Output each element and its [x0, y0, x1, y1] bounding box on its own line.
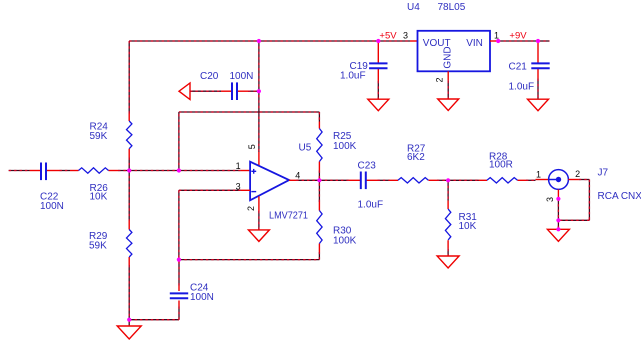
node junction J7 pin3: [556, 197, 560, 201]
wire pin 2 right: [579, 179, 590, 181]
svg-text:2: 2: [246, 206, 256, 211]
svg-text:GND: GND: [443, 46, 454, 68]
svg-text:1.0uF: 1.0uF: [340, 71, 366, 82]
capacitor C23: [361, 172, 366, 190]
capacitor C21: [531, 63, 549, 68]
node junction +5V / pin5 rail: [257, 39, 261, 43]
svg-text:100N: 100N: [40, 201, 64, 212]
op-amp U5 pin 2 stub: [258, 196, 260, 211]
op-amp U5 pin 3 stub: [241, 189, 250, 191]
wire R30 top to output node: [318, 180, 320, 202]
wire +5V to regulator: [378, 40, 410, 42]
input terminal arrow (C20 left): [179, 83, 190, 100]
wire to R25: [318, 112, 320, 122]
node junction bottom ground: [127, 318, 131, 322]
svg-text:100N: 100N: [230, 71, 254, 82]
wire input left stub: [9, 170, 30, 172]
resistor R25: [317, 129, 322, 162]
connector J7 pin 3 stub: [557, 189, 559, 198]
svg-text:10K: 10K: [459, 221, 477, 232]
capacitor C22 pins: [30, 170, 41, 172]
resistor R24 pins: [128, 114, 130, 122]
node junction J7 shield: [556, 218, 560, 222]
wire U4 pin 2 to ground: [447, 81, 449, 99]
svg-text:3: 3: [545, 197, 555, 202]
node junction J7 ground: [556, 227, 560, 231]
node junction C21: [536, 39, 540, 43]
svg-text:100N: 100N: [190, 292, 214, 303]
svg-text:2: 2: [575, 169, 580, 179]
regulator U4 pin 1 stub: [490, 40, 498, 42]
regulator U4 78L05 box: [418, 31, 491, 72]
svg-text:2: 2: [435, 77, 445, 82]
wire pin 3 left: [179, 189, 241, 191]
op-amp plus sign: [251, 169, 256, 174]
wire pin 2 to ground: [258, 211, 260, 230]
wire C22 to R26: [60, 170, 71, 172]
capacitor C20 pins: [221, 90, 231, 92]
wire +9V mid: [498, 40, 538, 42]
wire C21 to ground: [537, 79, 539, 100]
connector J7 pin 2 stub: [568, 179, 579, 181]
wire node to R28: [448, 179, 478, 181]
connector J7 RCA symbol: [549, 170, 569, 190]
svg-text:U5: U5: [299, 143, 312, 154]
svg-text:+9V: +9V: [509, 31, 527, 42]
svg-text:4: 4: [295, 171, 300, 181]
wire R25 to output node: [318, 171, 320, 181]
resistor R27 pins: [390, 179, 399, 181]
resistor R28: [487, 178, 518, 183]
regulator U4 pin 3 stub: [410, 40, 418, 42]
svg-text:3: 3: [403, 30, 408, 40]
wire pin 2 down: [588, 180, 590, 221]
wire +5V top mid: [259, 40, 378, 42]
wire R30 bottom riser: [318, 252, 320, 260]
capacitor C24: [170, 293, 188, 298]
node junction R27/R28/R31: [446, 178, 450, 182]
svg-text:LMV7271: LMV7271: [269, 211, 308, 222]
svg-text:C23: C23: [358, 161, 377, 172]
wire feedback tap up: [178, 112, 180, 171]
svg-text:5: 5: [247, 144, 257, 149]
op-amp U5 pin 4 stub: [289, 179, 296, 181]
resistor R27: [398, 178, 429, 183]
wire node to feedback tap: [129, 170, 179, 172]
wire pin 3 down: [557, 199, 559, 221]
capacitor C19: [369, 63, 387, 68]
resistor R29 pins: [128, 221, 130, 230]
wire R26 to node: [118, 170, 129, 172]
ground R31: [437, 256, 459, 268]
wire C24 bottom: [178, 307, 180, 320]
svg-text:59K: 59K: [90, 131, 108, 142]
op-amp U5 pin 5 stub: [258, 152, 260, 166]
svg-text:C20: C20: [200, 71, 219, 82]
resistor R30: [317, 211, 322, 244]
wire R31 to ground: [447, 249, 449, 256]
svg-text:78L05: 78L05: [438, 2, 466, 13]
wire shield to ground: [557, 220, 559, 229]
capacitor C23 pins: [349, 179, 361, 181]
ground bottom left: [117, 326, 141, 339]
svg-text:1.0uF: 1.0uF: [509, 81, 535, 92]
svg-text:10K: 10K: [90, 192, 108, 203]
svg-text:6K2: 6K2: [407, 152, 425, 163]
svg-text:1: 1: [494, 30, 499, 40]
wire C23 to R27: [378, 179, 390, 181]
wire feedback top: [179, 111, 320, 113]
capacitor C19 pins: [377, 41, 379, 63]
svg-text:1.0uF: 1.0uF: [358, 200, 384, 211]
wire +5V rail down to R24: [128, 41, 130, 114]
ground op-amp: [248, 230, 269, 242]
node junction C19: [376, 39, 380, 43]
resistor R26 pins: [70, 170, 79, 172]
svg-text:+5V: +5V: [379, 30, 397, 41]
wire node to C23: [319, 179, 348, 181]
node junction C24/feedback: [177, 258, 181, 262]
resistor R31: [445, 209, 450, 240]
op-amp U5 pin 1 stub: [241, 170, 250, 172]
regulator U4 pin 2 stub: [447, 71, 449, 80]
wire R27 to node: [437, 179, 448, 181]
resistor R29: [127, 230, 132, 258]
resistor R28 pins: [479, 179, 488, 181]
svg-text:100K: 100K: [333, 141, 357, 152]
svg-text:100K: 100K: [333, 236, 357, 247]
wire to ground: [128, 320, 130, 326]
capacitor C22: [41, 163, 46, 181]
wire bottom to C24: [129, 319, 179, 321]
connector J7 pin 1 stub: [536, 179, 549, 181]
wire R29 to bottom node: [128, 265, 130, 320]
wire C24 to feedback node: [178, 260, 180, 286]
op-amp U5 triangle: [250, 162, 289, 201]
wire C19 to ground: [377, 81, 379, 99]
wire pin 3 down: [178, 190, 180, 259]
wire +9V right: [538, 40, 550, 42]
wire +5V down to op-amp pin 5: [258, 41, 260, 152]
wire terminal to C20: [190, 90, 221, 92]
resistor R26: [79, 168, 109, 173]
wire to op-amp pin 1: [179, 170, 241, 172]
ground C19: [368, 99, 389, 111]
wire pin 2 to shield: [558, 219, 589, 221]
svg-text:C21: C21: [509, 61, 528, 72]
wire +5V top left: [129, 40, 259, 42]
node junction op-amp output: [317, 178, 321, 182]
capacitor C20: [232, 82, 237, 100]
node junction U4 pin1: [496, 39, 500, 43]
node junction R24/R26/R29: [127, 168, 131, 172]
svg-text:J7: J7: [598, 168, 609, 179]
node junction C20: [257, 89, 261, 93]
wire node down to R31: [447, 180, 449, 200]
wire pin 4 to node: [296, 179, 319, 181]
svg-text:VIN: VIN: [466, 38, 483, 49]
capacitor C21 pins: [537, 41, 539, 63]
ground J7: [547, 229, 569, 241]
op-amp minus sign: [251, 191, 256, 193]
svg-text:RCA CNX: RCA CNX: [598, 191, 641, 202]
resistor R24: [127, 121, 132, 149]
resistor R25 pins: [318, 122, 320, 129]
wire R28 to J7: [526, 179, 536, 181]
ground C21: [528, 99, 549, 111]
svg-text:59K: 59K: [89, 240, 107, 251]
wire C20 to pin5 rail: [248, 90, 259, 92]
svg-text:1: 1: [236, 161, 241, 171]
svg-text:1: 1: [536, 170, 541, 180]
svg-text:100R: 100R: [489, 160, 513, 171]
wire R24 to node: [128, 158, 130, 171]
svg-text:U4: U4: [407, 2, 420, 13]
resistor R30 pins: [318, 244, 320, 253]
capacitor C24 pins: [178, 301, 180, 307]
wire node down to R29: [128, 171, 130, 221]
node junction feedback tap: [177, 168, 181, 172]
wire feedback bottom: [179, 259, 320, 261]
ground U4: [438, 99, 459, 111]
resistor R31 pins: [447, 201, 449, 210]
